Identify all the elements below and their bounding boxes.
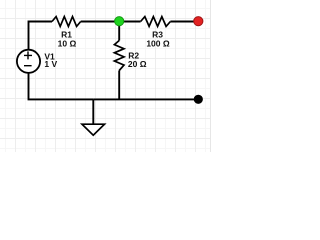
wire top: V1 top to R1 [29, 22, 53, 51]
ground [82, 99, 105, 135]
node C (black junction) [194, 95, 203, 104]
svg-text:100 Ω: 100 Ω [146, 38, 170, 48]
wire: R3 to node B [170, 21, 198, 23]
wire: ground rail to node C [93, 98, 198, 100]
svg-text:10 Ω: 10 Ω [58, 38, 77, 48]
label R2 [128, 51, 139, 61]
resistor R2 [114, 41, 124, 71]
canvas edge line [210, 0, 212, 152]
wire: node A down to R2 [118, 22, 120, 41]
svg-text:1 V: 1 V [44, 59, 57, 69]
wire: R2 to ground rail [118, 71, 120, 100]
label V1 value 1 V [44, 59, 57, 69]
voltage source V1 [17, 50, 40, 73]
wire: node A to R3 [119, 21, 140, 23]
wire: V1 bottom to ground rail [29, 73, 94, 100]
label R3 value 100 Ω [146, 38, 170, 48]
label R3 [152, 30, 163, 40]
resistor R3 [141, 17, 171, 27]
label V1 [44, 51, 55, 61]
label R2 value 20 Ω [128, 59, 147, 69]
node A (green junction) [115, 17, 124, 26]
svg-text:20 Ω: 20 Ω [128, 59, 147, 69]
background canvas [0, 0, 220, 152]
node B (red terminal) [194, 17, 203, 26]
resistor R1 [52, 17, 81, 27]
wire: R1 to node A [81, 21, 120, 23]
label R1 [61, 30, 72, 40]
label R1 value 10 Ω [58, 38, 77, 48]
